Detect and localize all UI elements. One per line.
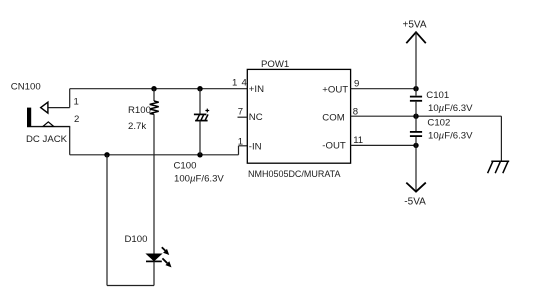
node junction at R100 top: [151, 86, 156, 91]
node junction +OUT rail: [413, 86, 418, 91]
svg-text:D100: D100: [125, 234, 148, 245]
svg-text:DC JACK: DC JACK: [26, 134, 68, 145]
ground (chassis): [488, 161, 510, 173]
dc-dc module POW1 body: [247, 69, 350, 163]
node junction at D100 loop: [104, 152, 109, 157]
svg-text:+IN: +IN: [249, 84, 264, 95]
wire top rail (+IN net): [70, 88, 248, 90]
svg-text:2: 2: [74, 114, 79, 125]
node junction at C100 top: [197, 86, 202, 91]
power -5VA: [404, 145, 426, 207]
svg-text:C101: C101: [426, 90, 449, 101]
capacitor C101: [410, 89, 422, 117]
svg-text:-IN: -IN: [249, 141, 262, 152]
node junction at C100 bottom: [197, 152, 202, 157]
svg-text:-OUT: -OUT: [322, 141, 346, 152]
svg-text:1: 1: [238, 136, 243, 147]
svg-text:NC: NC: [249, 112, 263, 123]
wire D100 return loop: [107, 155, 154, 286]
svg-text:R100: R100: [128, 105, 151, 116]
wire pin1 stub: [48, 89, 69, 108]
svg-text:+5VA: +5VA: [403, 19, 427, 30]
connector CN100 DC jack: [27, 102, 54, 127]
node junction COM rail: [413, 114, 418, 119]
wire +OUT pin 9: [351, 88, 416, 90]
svg-text:11: 11: [353, 135, 363, 146]
svg-text:C100: C100: [174, 161, 197, 172]
wire COM pin 8: [351, 116, 502, 161]
svg-text:1: 1: [74, 97, 79, 108]
svg-text:2.7k: 2.7k: [128, 121, 146, 132]
node junction -OUT rail: [413, 143, 418, 148]
svg-text:14: 14: [232, 78, 251, 89]
wire -OUT pin 11: [351, 144, 416, 146]
wire pin2 segment: [27, 127, 70, 155]
LED D100: [146, 247, 172, 267]
svg-text:NMH0505DC/MURATA: NMH0505DC/MURATA: [248, 169, 341, 180]
svg-text:C102: C102: [427, 118, 450, 129]
resistor R100: [150, 89, 159, 255]
capacitor C100 (polarized): [194, 89, 209, 155]
svg-text:+OUT: +OUT: [322, 85, 348, 96]
svg-text:-5VA: -5VA: [404, 197, 426, 208]
svg-text:10µF/6.3V: 10µF/6.3V: [428, 131, 473, 142]
power +5VA: [403, 19, 427, 88]
wire NC stub pin 7: [238, 116, 248, 118]
svg-text:9: 9: [354, 78, 359, 89]
svg-text:7: 7: [238, 107, 243, 118]
wire bottom rail (-IN net): [70, 146, 248, 155]
svg-text:100µF/6.3V: 100µF/6.3V: [174, 173, 224, 184]
svg-text:COM: COM: [322, 113, 344, 124]
svg-text:10µF/6.3V: 10µF/6.3V: [428, 103, 473, 114]
svg-text:POW1: POW1: [261, 59, 289, 70]
capacitor C102: [410, 116, 422, 145]
svg-text:CN100: CN100: [11, 81, 41, 92]
